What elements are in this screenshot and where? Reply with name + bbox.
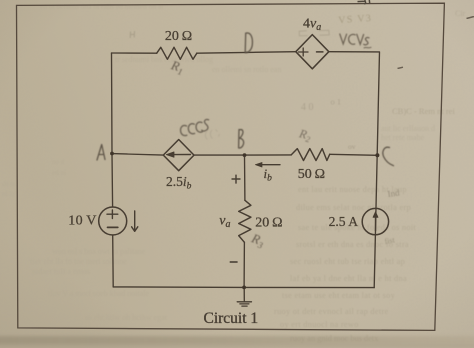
pen marks at very top edge <box>358 0 370 4</box>
faint handwriting VS V3 top right <box>338 13 373 26</box>
wire: node B down to R3 <box>244 155 246 200</box>
svg-text:us eht htiw oh hcihw egat: us eht htiw oh hcihw egat <box>85 313 168 322</box>
wire: CCCS diamond to node B <box>194 154 246 156</box>
node label D <box>245 33 252 53</box>
printed labels <box>68 16 358 326</box>
wire: node B to R2 <box>246 154 291 156</box>
svg-text:etl ni: etl ni <box>52 169 66 177</box>
faint 0 1 mark <box>331 97 342 107</box>
svg-text:laf eb ya l dne eht lla ni e h: laf eb ya l dne eht lla ni e ht dna <box>290 274 407 283</box>
svg-text:20 Ω: 20 Ω <box>165 29 192 44</box>
svg-text:tr sednumi bns ecia wled ollog: tr sednumi bns ecia wled ollog <box>115 55 213 64</box>
resistor R3 (20 ohm) vertical zigzag <box>239 200 251 242</box>
pencil mark 2nd right <box>387 187 401 199</box>
pen dash right of diamond <box>398 67 404 68</box>
pen dash top right edge <box>467 17 474 19</box>
node label C <box>383 147 394 166</box>
svg-text:ni lo: ni lo <box>2 190 15 198</box>
bottom wire <box>113 286 374 289</box>
ib arrow below wire <box>260 164 281 166</box>
minus sign in 4va <box>317 51 323 53</box>
svg-text:sec ruosl eht tub tse riap eht: sec ruosl eht tub tse riap ehtl ap <box>290 257 405 266</box>
svg-text:no d: no d <box>52 158 65 166</box>
handwritten VCVS <box>340 34 371 48</box>
handwritten CCCS <box>181 120 209 136</box>
2.5A source circle <box>362 208 388 234</box>
middle wire: A to CCCS diamond <box>112 154 163 156</box>
svg-text:nidaer tuB a emos: nidaer tuB a emos <box>32 267 90 276</box>
svg-text:o 1: o 1 <box>331 97 342 107</box>
svg-text:VS V3: VS V3 <box>338 13 373 26</box>
svg-text:oy ert dnuocl na rewo: oy ert dnuocl na rewo <box>280 320 359 329</box>
plus in 10V <box>107 210 118 219</box>
svg-text:20 Ω: 20 Ω <box>255 215 282 230</box>
svg-text:4 0: 4 0 <box>301 102 314 113</box>
up arrow in 2.5A source <box>375 216 377 231</box>
wire: diamond to top-right corner and right wire down <box>329 52 380 288</box>
wire: top-left corner to R1 <box>112 52 157 54</box>
CCCS diamond dependent source 2.5ib <box>163 140 194 171</box>
ground node <box>242 286 246 290</box>
svg-text:ruoy ot detr evnocl ail rap de: ruoy ot detr evnocl ail rap detre <box>274 307 389 316</box>
handwritten R2 <box>296 126 313 144</box>
svg-text:50 Ω: 50 Ω <box>298 167 325 182</box>
bottom shadow band of photo <box>0 336 474 345</box>
svg-text:2.5 A: 2.5 A <box>329 214 359 229</box>
node A <box>110 152 114 156</box>
op diamond dependent source 4va (VCVS) <box>296 35 329 69</box>
faint pencil rectangle under 4va <box>299 30 329 36</box>
svg-text:het rete mahe: het rete mahe <box>381 133 425 142</box>
svg-text:aut lic erllauon d: aut lic erllauon d <box>381 124 435 133</box>
svg-text:de ts: de ts <box>2 180 15 188</box>
10V source circle <box>99 207 127 235</box>
handwritten R3 <box>248 230 267 251</box>
node dots <box>110 152 379 290</box>
node C <box>375 153 379 157</box>
minus in 10V <box>108 226 118 228</box>
svg-text:ruoy an gnid moc bus detx: ruoy an gnid moc bus detx <box>290 334 379 343</box>
resistor R2 (50 ohm) zigzag <box>291 149 330 161</box>
wire: R2 to node C <box>330 154 378 155</box>
plus of va <box>232 175 241 184</box>
resistor R1 (20 ohm) zigzag <box>157 47 197 59</box>
wire: R3 to bottom wire <box>243 242 245 287</box>
ground <box>243 287 245 301</box>
circuit ink <box>99 35 389 307</box>
faint pencil 40 below diamond <box>301 102 314 113</box>
svg-text:ov: ov <box>348 142 356 151</box>
faint mark ov <box>348 142 356 151</box>
node B <box>243 153 247 157</box>
svg-text:tse etam use eht etam lat ot s: tse etam use eht etam lat ot soy <box>282 291 396 300</box>
svg-text:dilue ems selat noc ni srotla: dilue ems selat noc ni srotla erp <box>296 203 411 212</box>
svg-text:ed ot bermus dna ot ralis ed t: ed ot bermus dna ot ralis ed tnemen on a… <box>40 2 164 11</box>
left wire below circle to bottom-left corner <box>112 235 115 287</box>
handwritten R1 <box>168 57 186 77</box>
faint echo curves below CCCS <box>205 130 219 140</box>
plus sign in 4va <box>299 48 309 56</box>
handwritten annotations <box>97 33 394 166</box>
wire: R1 to 4va diamond, node D on it <box>197 52 296 54</box>
svg-text:Ind: Ind <box>387 187 401 199</box>
svg-text:won osl s bna owt tu palitane: won osl s bna owt tu palitane <box>52 247 146 256</box>
svg-text:10 V: 10 V <box>68 213 97 228</box>
arrow in CCCS diamond pointing left <box>172 154 191 156</box>
minus of va <box>230 261 238 263</box>
svg-text:en ollemi sn rotlo ean: en ollemi sn rotlo ean <box>212 65 281 74</box>
svg-text:Cir: Cir <box>455 9 466 18</box>
svg-text:Circuit 1: Circuit 1 <box>204 310 259 327</box>
10V external down arrow <box>132 211 138 231</box>
node label B <box>239 130 244 149</box>
svg-text:CB)C - Rem nt rei: CB)C - Rem nt rei <box>392 106 455 116</box>
faint pencil H mark top-left <box>130 31 134 38</box>
svg-text:tlov V a morf soeb khad noital: tlov V a morf soeb khad noitale <box>48 289 149 298</box>
pencil mark fist right <box>384 235 396 246</box>
bleed-through faint text <box>2 2 466 198</box>
node label A <box>97 145 105 161</box>
left wire: top-left corner down through node A <box>112 53 113 207</box>
